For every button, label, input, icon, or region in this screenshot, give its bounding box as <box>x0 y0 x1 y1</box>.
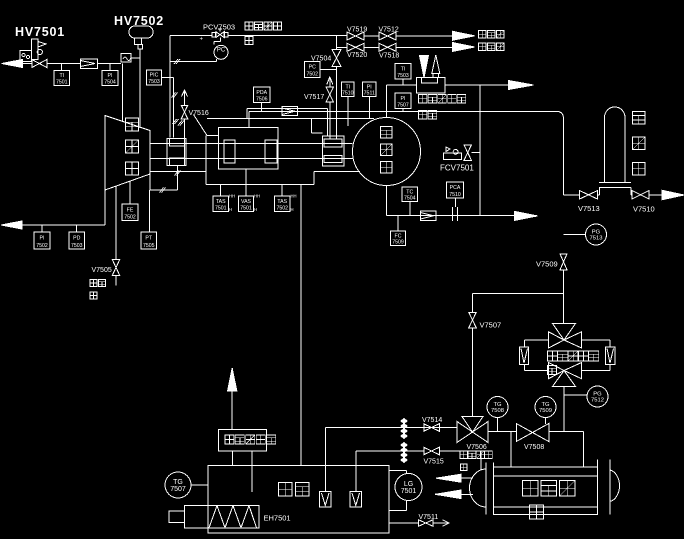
wire <box>131 57 140 59</box>
instrument square PDA7506 <box>254 87 271 103</box>
wire <box>631 188 632 195</box>
wire <box>479 85 481 216</box>
svg-text:V7507: V7507 <box>480 321 502 330</box>
valve V7512 <box>379 27 399 41</box>
svg-text:PCV7503: PCV7503 <box>203 23 235 32</box>
valve V7515 <box>424 447 444 465</box>
wire <box>261 103 263 112</box>
wire <box>41 225 43 232</box>
wire <box>497 418 499 432</box>
wire <box>472 328 474 417</box>
casing left vertical <box>205 136 207 185</box>
wire <box>104 190 106 225</box>
svg-text:PC: PC <box>309 65 316 71</box>
svg-text:7507: 7507 <box>170 486 186 493</box>
svg-text:7502: 7502 <box>276 205 288 211</box>
svg-text:7509: 7509 <box>539 408 552 414</box>
instrument square TAS7501 <box>213 194 235 213</box>
wire <box>281 184 283 196</box>
label pengzhangji <box>126 118 139 175</box>
svg-text:EH7501: EH7501 <box>264 514 291 523</box>
wire <box>329 102 331 140</box>
arrow seal gas 1 <box>453 31 475 40</box>
wire PC to tap <box>170 59 217 64</box>
wire <box>325 428 327 492</box>
label HV7501 <box>15 25 65 39</box>
arrowhead V7511 <box>443 520 450 526</box>
wire <box>76 225 78 232</box>
svg-text:7507: 7507 <box>397 102 409 108</box>
label HV7502 <box>114 14 164 28</box>
svg-text:7501: 7501 <box>56 79 68 85</box>
strainer <box>81 59 98 69</box>
svg-text:H: H <box>254 207 257 212</box>
label EH7501 <box>264 514 291 523</box>
wire <box>232 451 234 465</box>
wire <box>162 77 174 79</box>
label xunengqi <box>633 112 646 176</box>
valve V7504 <box>311 50 341 67</box>
wire <box>445 84 510 86</box>
wire <box>178 119 185 166</box>
separator box <box>219 430 267 452</box>
valve V7507 <box>469 312 501 329</box>
svg-text:PI: PI <box>401 96 406 102</box>
instrument square PI7507 <box>395 93 411 109</box>
casing outer left diag <box>194 115 219 136</box>
wire <box>115 276 117 286</box>
instrument square TAS7502 <box>275 194 297 213</box>
label aftercooler <box>419 95 466 120</box>
svg-text:TI: TI <box>59 73 64 79</box>
wire <box>510 432 512 468</box>
valve V7510 <box>632 191 655 214</box>
instrument square PC7502 <box>305 62 321 78</box>
svg-text:PIC: PIC <box>150 73 159 79</box>
wire <box>402 109 404 112</box>
svg-text:7501: 7501 <box>240 205 252 211</box>
cooler right head <box>598 460 620 515</box>
wire <box>336 67 338 140</box>
svg-text:FE: FE <box>127 207 134 213</box>
wire <box>139 49 141 128</box>
label separator <box>225 435 276 444</box>
svg-text:PD: PD <box>73 236 80 242</box>
valve V7520 <box>347 43 367 59</box>
wire <box>231 391 233 430</box>
arrow discharge <box>509 81 534 90</box>
wire <box>564 234 586 236</box>
svg-text:7504: 7504 <box>404 195 416 201</box>
aftercooler stack solid <box>420 56 429 78</box>
gauge PG7513 <box>586 224 607 245</box>
casing step bottom <box>150 171 206 173</box>
gear housing inner <box>219 128 279 170</box>
svg-text:H: H <box>229 207 232 212</box>
svg-text:V7513: V7513 <box>578 204 600 213</box>
instrument square TI7510 <box>342 82 355 97</box>
valve V7506 3way <box>457 417 488 443</box>
arrow vent up <box>228 368 237 391</box>
accumulator vessel <box>599 107 631 188</box>
valve V7514 <box>422 417 442 431</box>
wire <box>525 365 549 371</box>
svg-text:V7520: V7520 <box>347 52 367 59</box>
wire <box>598 188 600 195</box>
wire <box>386 85 388 118</box>
level gauge 2 <box>350 492 362 508</box>
label V7506 <box>467 444 487 451</box>
svg-text:PT: PT <box>145 236 152 242</box>
wire booster line <box>249 110 556 112</box>
wire <box>115 187 117 260</box>
wire <box>563 387 565 432</box>
arrow accumulator out <box>662 190 684 200</box>
svg-text:V7514: V7514 <box>422 417 442 424</box>
svg-text:PC: PC <box>217 48 226 54</box>
wire <box>22 224 105 226</box>
wire <box>109 64 111 71</box>
booster body <box>353 118 421 186</box>
wire <box>387 84 417 86</box>
svg-text:H: H <box>291 207 294 212</box>
valve V7505 <box>92 260 120 276</box>
valve V7517 <box>304 87 334 102</box>
svg-text:7503: 7503 <box>71 243 83 249</box>
wire <box>389 470 407 473</box>
wire <box>402 79 404 85</box>
svg-text:V7506: V7506 <box>467 444 487 451</box>
aftercooler <box>417 78 446 94</box>
arrow oil supply 2 <box>435 490 473 499</box>
wire <box>129 182 131 205</box>
label cooler <box>523 481 576 520</box>
wire <box>582 340 611 347</box>
svg-text:+: + <box>200 37 204 43</box>
valve V7516 <box>181 105 209 119</box>
instrument square PCA7510 <box>447 182 464 198</box>
valve FCV7501 <box>444 145 472 161</box>
label fangsan <box>90 280 106 300</box>
svg-text:V7510: V7510 <box>633 205 655 214</box>
svg-text:7512: 7512 <box>591 398 604 404</box>
casing bottom <box>206 183 314 185</box>
wire <box>23 63 32 65</box>
svg-text:TI: TI <box>401 66 406 72</box>
label dual filter <box>548 351 599 375</box>
filter top 3way valve <box>549 324 582 349</box>
gauge TG7509 <box>535 397 556 425</box>
svg-text:7501: 7501 <box>401 488 417 495</box>
wire <box>397 216 399 231</box>
valve V7518 <box>379 43 399 59</box>
wire <box>337 46 347 48</box>
instrument square TC7504 <box>402 187 418 202</box>
wire <box>122 64 124 122</box>
instrument square FE7502 <box>122 204 138 221</box>
filter element right <box>606 347 616 365</box>
level gauge 1 <box>320 492 332 508</box>
vent arrowhead V7517 <box>327 77 333 87</box>
wire <box>347 97 349 127</box>
wire <box>320 69 337 71</box>
gauge TG7508 <box>487 397 508 418</box>
vent arrowhead V7516 <box>182 90 188 105</box>
wire <box>389 501 407 511</box>
wire corner <box>556 111 564 195</box>
instrument square PD7503 <box>69 232 85 249</box>
svg-text:7503: 7503 <box>397 73 409 79</box>
label PCV7503 <box>203 23 235 32</box>
wire <box>191 484 208 486</box>
arrow oil supply 1 <box>436 474 473 482</box>
svg-text:7509: 7509 <box>392 239 404 245</box>
svg-text:VAS: VAS <box>241 199 252 205</box>
svg-text:7510: 7510 <box>342 90 354 96</box>
wire <box>355 451 357 492</box>
oil tank <box>208 465 389 533</box>
svg-text:7508: 7508 <box>491 408 504 414</box>
wire <box>387 215 515 217</box>
valve HV7501 <box>31 39 47 68</box>
cooler shell <box>494 467 598 515</box>
svg-text:HV7501: HV7501 <box>15 25 65 39</box>
wire <box>472 294 474 313</box>
svg-text:LG: LG <box>404 481 413 488</box>
gauge LG7501 <box>395 474 422 501</box>
svg-text:V7512: V7512 <box>379 27 399 34</box>
svg-text:V7518: V7518 <box>379 53 399 60</box>
svg-text:V7508: V7508 <box>524 444 544 451</box>
wire <box>386 186 388 216</box>
label jingmi-jianya <box>245 22 282 45</box>
wire <box>433 522 448 524</box>
svg-text:V7517: V7517 <box>304 94 324 101</box>
arrow seal gas 2 <box>453 43 475 52</box>
wire <box>439 451 481 470</box>
svg-text:PI: PI <box>40 236 45 242</box>
instrument square TI7502 <box>34 232 50 249</box>
label youxiang <box>279 483 310 497</box>
wire <box>455 198 457 207</box>
flange <box>453 207 458 221</box>
svg-text:V7519: V7519 <box>347 27 367 34</box>
wire <box>564 394 587 396</box>
casing lid <box>247 109 328 137</box>
vessel HV7502 pilot <box>129 26 153 49</box>
filter bottom 3way valve <box>549 363 582 387</box>
svg-text:7506: 7506 <box>256 96 268 102</box>
wire <box>220 184 222 196</box>
svg-text:V7516: V7516 <box>189 110 209 117</box>
valve V7508 <box>516 424 549 452</box>
svg-text:7511: 7511 <box>364 90 375 96</box>
label FCV7501 <box>440 164 474 173</box>
wire <box>228 35 347 37</box>
wire <box>364 35 453 37</box>
bearing block 1 <box>224 140 235 163</box>
valve V7511 <box>418 514 438 526</box>
svg-text:HH: HH <box>291 194 297 199</box>
wire <box>47 63 81 65</box>
wire PC sense <box>200 37 221 45</box>
wire to oil tank <box>300 184 302 465</box>
wire <box>564 194 580 196</box>
label seal gas 2 <box>479 43 505 51</box>
casing right vertical <box>312 119 323 134</box>
svg-text:7501: 7501 <box>215 205 227 211</box>
instrument square SV7501 <box>20 51 32 62</box>
filter element left <box>520 347 529 365</box>
valve V7519 <box>347 27 367 41</box>
gauge TG7507 <box>165 472 191 498</box>
instrument square VAS7501 <box>239 194 261 213</box>
label zengyaji <box>381 127 393 174</box>
svg-text:FCV7501: FCV7501 <box>440 164 474 173</box>
valve PCV7503 <box>212 29 228 38</box>
bearing housing left <box>167 139 186 166</box>
label zhongya <box>460 451 492 471</box>
valve V7513 <box>578 191 600 213</box>
wire <box>583 432 585 468</box>
wire <box>356 450 424 452</box>
heater EH7501 <box>169 506 259 528</box>
svg-text:7502: 7502 <box>124 214 136 220</box>
strainer 2 <box>282 107 298 116</box>
arrow to process <box>515 211 538 220</box>
instrument square PI7504 <box>102 71 118 86</box>
wire <box>525 340 549 347</box>
valve V7509 <box>536 254 567 270</box>
arrow outlet left <box>1 221 22 229</box>
svg-text:V7505: V7505 <box>92 267 112 274</box>
instrument square PCA7503 <box>147 70 162 85</box>
instrument square solenoid <box>121 54 131 63</box>
svg-text:PDA: PDA <box>256 90 267 96</box>
wire <box>245 169 247 196</box>
wire <box>563 270 565 324</box>
arrow inlet left <box>2 60 23 68</box>
wire <box>251 451 253 492</box>
instrument square TI7501 <box>54 71 70 86</box>
wire <box>336 36 338 50</box>
svg-text:PCA: PCA <box>450 185 461 191</box>
svg-text:7502: 7502 <box>306 71 318 77</box>
wire <box>248 111 250 127</box>
wire tap1 <box>169 36 171 138</box>
svg-text:V7509: V7509 <box>536 260 558 269</box>
casing outer top <box>207 118 374 120</box>
svg-text:PI: PI <box>108 73 113 79</box>
instrument square PT7505 <box>141 232 157 249</box>
svg-text:HH: HH <box>229 194 235 199</box>
quick coupling stack 2 <box>401 443 407 463</box>
wire <box>409 202 411 216</box>
expander body <box>105 116 150 191</box>
svg-text:V7515: V7515 <box>424 459 444 466</box>
svg-text:7505: 7505 <box>143 243 155 249</box>
bearing housing right <box>323 136 345 166</box>
wire <box>582 365 611 371</box>
svg-text:7510: 7510 <box>449 192 461 198</box>
svg-text:7513: 7513 <box>590 236 603 242</box>
instrument square FC7509 <box>391 231 406 246</box>
wire <box>326 427 458 429</box>
svg-text:7504: 7504 <box>104 79 116 85</box>
svg-text:7503: 7503 <box>148 79 160 85</box>
wire <box>150 174 178 193</box>
wire <box>175 166 181 191</box>
controller PC circle <box>214 45 228 59</box>
label seal gas 1 <box>479 31 505 39</box>
wire <box>649 194 662 196</box>
casing step right <box>314 172 360 185</box>
instrument square PI7511 <box>363 82 377 97</box>
quick coupling stack 1 <box>401 419 407 439</box>
wire <box>473 293 564 295</box>
gauge PG7512 <box>587 386 608 407</box>
wire <box>472 152 481 154</box>
svg-text:TAS: TAS <box>277 199 287 205</box>
instrument square TI7503 <box>395 64 411 80</box>
svg-text:7502: 7502 <box>36 243 48 249</box>
wire <box>61 64 63 71</box>
svg-text:TG: TG <box>173 479 183 486</box>
strainer 3 <box>421 211 437 221</box>
wire <box>170 35 212 37</box>
svg-text:V7511: V7511 <box>419 514 439 521</box>
wire <box>364 46 453 48</box>
wire <box>149 190 151 232</box>
svg-text:TAS: TAS <box>216 199 226 205</box>
wire <box>549 431 584 433</box>
aftercooler flare <box>432 55 440 78</box>
svg-text:HH: HH <box>254 194 260 199</box>
wire <box>488 431 517 433</box>
wire <box>369 97 371 120</box>
bearing block 2 <box>265 140 277 163</box>
shaft <box>150 144 353 159</box>
wire tap2 <box>172 78 179 138</box>
wire <box>98 63 122 65</box>
cooler left head <box>470 463 494 515</box>
wire <box>389 522 419 524</box>
